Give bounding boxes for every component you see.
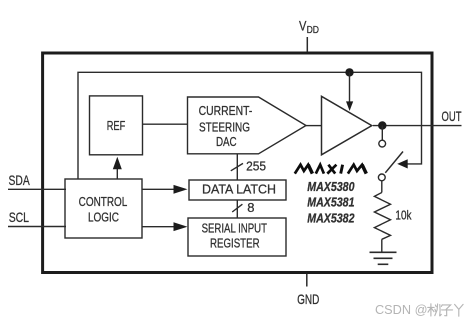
- svg-text:REF: REF: [107, 118, 126, 133]
- arrowhead switch control: [397, 159, 408, 168]
- bus width slash: [232, 204, 242, 212]
- wire SDA input: [8, 188, 66, 190]
- switch top contact (open circle): [379, 140, 386, 147]
- svg-text:SDA: SDA: [9, 173, 31, 188]
- block REF: [90, 96, 143, 155]
- svg-text:GND: GND: [297, 292, 319, 307]
- block SERIAL INPUT REGISTER: [188, 218, 286, 256]
- node VDD pin stub: [306, 37, 308, 52]
- junction dot at output: [378, 121, 386, 129]
- svg-text:CONTROL: CONTROL: [79, 194, 128, 209]
- wire output dot to switch top contact: [381, 126, 383, 141]
- node GND pin stub: [306, 274, 308, 287]
- switch arm: [385, 152, 403, 173]
- svg-text:OUT: OUT: [442, 109, 462, 124]
- wire internal supply rail (top, right side, to switch control arrow): [78, 72, 422, 178]
- MAXIM logo: [295, 165, 367, 174]
- svg-text:STEERING: STEERING: [199, 120, 250, 135]
- wire SCL input: [8, 226, 66, 228]
- svg-text:DAC: DAC: [216, 134, 237, 149]
- svg-text:SCL: SCL: [9, 210, 30, 225]
- svg-text:255: 255: [246, 158, 266, 173]
- ground: [370, 251, 397, 253]
- op-amp buffer triangle: [322, 96, 372, 155]
- wire data latch to serial input register (bus): [236, 200, 238, 218]
- block DATA LATCH: [189, 180, 286, 200]
- wire control logic to data latch with arrowhead: [142, 188, 175, 190]
- control logic block: [65, 179, 142, 238]
- svg-text:DD: DD: [307, 25, 319, 36]
- svg-text:8: 8: [247, 200, 254, 215]
- wire DAC to data latch (bus): [236, 154, 238, 180]
- svg-text:DATA LATCH: DATA LATCH: [202, 182, 276, 197]
- svg-text:10k: 10k: [395, 208, 411, 223]
- switch bottom contact (open circle): [378, 174, 385, 181]
- block CURRENT-STEERING DAC (pentagon): [188, 97, 307, 154]
- arrowhead into op-amp: [346, 101, 353, 111]
- svg-text:LOGIC: LOGIC: [88, 210, 119, 225]
- wire control logic to REF with arrowhead: [116, 167, 118, 179]
- junction dot on supply rail: [345, 68, 353, 76]
- svg-text:CSDN @: CSDN @: [375, 302, 428, 317]
- svg-text:MAX5380: MAX5380: [307, 180, 354, 194]
- part numbers MAX5380 MAX5381 MAX5382: [307, 180, 354, 226]
- wire arrow into op-amp: [349, 72, 351, 102]
- svg-text:MAX5382: MAX5382: [307, 211, 354, 225]
- bus width slash: [231, 163, 243, 170]
- svg-text:REGISTER: REGISTER: [210, 235, 260, 250]
- svg-text:MAX5381: MAX5381: [307, 196, 354, 210]
- chip outer boundary box: [43, 53, 432, 273]
- wire output to OUT pin: [373, 125, 462, 127]
- svg-text:CURRENT-: CURRENT-: [199, 103, 253, 118]
- wire DAC to op-amp: [306, 125, 322, 127]
- wire control logic to serial input register with arrowhead: [142, 226, 175, 228]
- svg-text:SERIAL INPUT: SERIAL INPUT: [202, 221, 267, 236]
- resistor R 10k: [381, 181, 383, 193]
- wire REF to DAC: [143, 123, 188, 125]
